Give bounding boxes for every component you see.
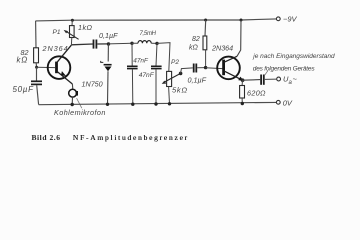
inductor L1 7,5mH	[138, 31, 157, 43]
wire J4 to Q2 base	[206, 67, 223, 70]
node J2	[130, 42, 133, 45]
node mic rail dot	[71, 103, 74, 106]
label Kohlemikrofon with leader	[54, 98, 106, 117]
node C4 rail dot	[154, 102, 157, 105]
svg-text:P2: P2	[171, 59, 179, 66]
svg-text:5kΩ: 5kΩ	[172, 86, 188, 95]
svg-text:47nF: 47nF	[133, 58, 149, 65]
transistor Q2 2N364	[211, 44, 244, 82]
node P2 rail dot	[168, 102, 171, 105]
wire C0 to bottom rail	[37, 85, 39, 104]
wire top -9V rail	[36, 19, 277, 21]
node C3 rail dot	[131, 103, 134, 106]
node J3	[155, 42, 158, 45]
wire C5 to Ua terminal	[265, 78, 277, 80]
transistor Q1 2N364	[42, 44, 73, 84]
caption Bild 2.6 NF-Amplitudenbegrenzer	[32, 133, 61, 142]
wire base node down to C0	[36, 67, 38, 80]
svg-text:7,5mH: 7,5mH	[140, 31, 157, 37]
svg-text:~: ~	[293, 75, 298, 84]
wire J3 to P2 corner	[157, 43, 170, 72]
terminal 0V	[276, 98, 292, 107]
capacitor C3 47nF left	[127, 43, 149, 104]
node J5 emitter junction	[241, 78, 245, 82]
svg-text:82: 82	[192, 36, 200, 43]
svg-text:47nF: 47nF	[139, 72, 155, 79]
node Q2 collector rail dot	[240, 19, 243, 22]
microphone M1 carbon mic	[69, 89, 78, 104]
wire Q1 emitter to microphone	[71, 84, 73, 89]
capacitor C1 0,1µF	[94, 31, 119, 49]
node zener rail dot	[106, 103, 109, 106]
svg-text:1N750: 1N750	[82, 80, 103, 89]
capacitor C0 50µF	[13, 81, 43, 94]
wire base node to Q1 base	[37, 66, 55, 68]
terminal Ua~	[277, 75, 298, 87]
node R3 top rail dot	[204, 19, 207, 22]
wire P2 wiper to C2	[181, 68, 193, 74]
svg-text:620Ω: 620Ω	[247, 89, 266, 98]
potentiometer P2 5kΩ	[162, 59, 188, 104]
potentiometer P1 1kΩ	[53, 19, 93, 45]
node J4	[204, 66, 207, 69]
capacitor C4 47nF right	[139, 43, 162, 104]
node base junction Q1	[35, 66, 38, 69]
zener diode D1 1N750	[82, 61, 112, 105]
svg-text:je nach Eingangswiderstand: je nach Eingangswiderstand	[252, 53, 335, 60]
wire left rail top to R1	[35, 21, 37, 48]
terminal -9V	[276, 15, 297, 24]
wire collector node to C1	[71, 43, 92, 46]
node P2 wiper dot	[179, 72, 183, 76]
svg-text:Kohlemikrofon: Kohlemikrofon	[54, 108, 106, 117]
svg-text:des folgenden Gerätes: des folgenden Gerätes	[253, 66, 316, 73]
wire J1 to J2	[109, 42, 133, 45]
wire L1 to J3	[151, 42, 157, 44]
wire J2 to L1	[132, 42, 138, 44]
svg-text:1kΩ: 1kΩ	[78, 23, 92, 32]
svg-text:2N364: 2N364	[211, 44, 233, 53]
svg-text:kΩ: kΩ	[17, 55, 28, 64]
svg-text:−9V: −9V	[283, 15, 298, 24]
svg-text:0,1µF: 0,1µF	[99, 31, 118, 40]
wire Q2 collector to rail	[237, 20, 241, 56]
svg-text:kΩ: kΩ	[189, 45, 199, 52]
annotation je nach Eingangswiderstand des folgenden Gerätes	[252, 53, 335, 73]
svg-text:0V: 0V	[283, 98, 293, 107]
wire R1 to base node	[35, 63, 37, 67]
capacitor C2 0,1µF	[188, 64, 207, 85]
svg-text:P1: P1	[53, 29, 61, 36]
wire J1 to zener D1	[107, 44, 109, 62]
wire bottom 0V rail	[39, 102, 277, 104]
node J1	[107, 42, 110, 45]
svg-text:0,1µF: 0,1µF	[188, 76, 207, 85]
resistor R4 620Ω	[240, 86, 266, 104]
wire J5 to C5	[243, 79, 261, 82]
annotation leader	[265, 71, 268, 75]
svg-text:50µF: 50µF	[13, 85, 35, 94]
node R4 rail dot	[241, 102, 244, 105]
resistor R3 82kΩ	[189, 20, 207, 66]
wire C2 to base node J4	[197, 67, 205, 69]
svg-text:2N364: 2N364	[42, 44, 69, 53]
wire J5 down to R4	[241, 80, 243, 85]
wire C1 to node J1	[97, 43, 108, 45]
capacitor C5 output	[261, 75, 264, 85]
resistor R1 82kΩ	[17, 48, 39, 65]
